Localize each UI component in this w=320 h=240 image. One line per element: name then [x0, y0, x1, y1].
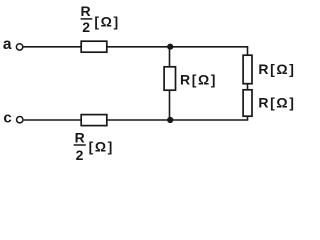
resistor R/2 bottom [81, 115, 107, 126]
svg-text:R: R [81, 3, 91, 19]
node junction bottom [167, 117, 173, 123]
terminal c [17, 117, 23, 123]
wire junction to middle resistor [169, 47, 171, 67]
svg-text:R[Ω]: R[Ω] [258, 95, 295, 111]
svg-text:c: c [3, 109, 11, 126]
wire a to R/2 top [23, 46, 81, 48]
wire c to R/2 bottom [24, 119, 82, 121]
svg-text:R[Ω]: R[Ω] [258, 61, 295, 77]
terminal a [16, 44, 22, 50]
svg-text:[Ω]: [Ω] [94, 14, 119, 30]
node junction top [167, 44, 173, 50]
resistor R right upper [243, 55, 252, 83]
label R/2 [ohm] bottom: numerator R [74, 129, 114, 163]
svg-text:[Ω]: [Ω] [89, 139, 114, 155]
resistor R middle [164, 67, 175, 90]
svg-text:R: R [75, 129, 85, 145]
fraction bar [81, 18, 93, 20]
wire top rail with corner down to right branch [107, 47, 248, 55]
resistor R/2 top [81, 41, 107, 52]
svg-text:2: 2 [76, 147, 84, 163]
label R/2 [ohm] top: numerator R [81, 3, 120, 35]
resistor R right lower [243, 90, 252, 116]
fraction bar [74, 144, 86, 146]
svg-text:R[Ω]: R[Ω] [180, 72, 217, 88]
wire between right resistors [247, 84, 249, 90]
svg-text:2: 2 [82, 19, 90, 35]
svg-text:a: a [3, 36, 12, 53]
wire bottom rail with corner up to right branch [107, 116, 248, 120]
wire middle resistor to bottom rail [169, 91, 171, 121]
